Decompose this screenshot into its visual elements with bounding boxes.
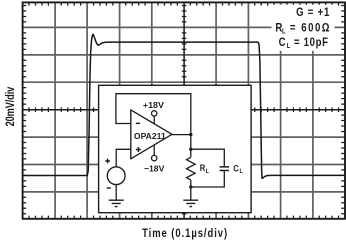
op-amp U1 OPA211 bbox=[131, 110, 172, 159]
label RL bbox=[200, 162, 209, 175]
y-axis label 20mV/div bbox=[5, 87, 17, 127]
svg-text:= 10pF: = 10pF bbox=[294, 36, 328, 49]
x-axis label Time (0.1us/div) bbox=[142, 227, 227, 240]
voltage source V1 bbox=[107, 167, 125, 185]
svg-text:L: L bbox=[282, 28, 286, 36]
svg-text:+18V: +18V bbox=[143, 100, 164, 110]
capacitor CL plates bbox=[220, 167, 229, 171]
wire CL bottom to ground rail bbox=[191, 171, 225, 187]
label CL bbox=[233, 163, 243, 176]
svg-text:OPA211: OPA211 bbox=[134, 131, 166, 141]
negative supply stub bbox=[153, 145, 155, 156]
source plus sign bbox=[105, 159, 110, 164]
feedback wire from output to inverting input bbox=[116, 94, 191, 135]
svg-text:−18V: −18V bbox=[144, 163, 165, 173]
negative supply terminal bbox=[152, 155, 157, 160]
circuit inset box bbox=[99, 85, 252, 212]
svg-text:R: R bbox=[200, 162, 206, 173]
label RL = 600 ohm bbox=[275, 21, 329, 35]
node: op-amp output junction bbox=[189, 133, 192, 136]
op-amp noninverting input sign bbox=[136, 147, 141, 152]
node: bottom ground junction bbox=[189, 185, 192, 188]
svg-text:G = +1: G = +1 bbox=[296, 6, 329, 19]
svg-text:L: L bbox=[287, 43, 291, 51]
wire source bottom to ground bbox=[115, 185, 117, 201]
svg-text:C: C bbox=[279, 36, 286, 49]
positive supply stub bbox=[153, 116, 155, 124]
resistor RL bbox=[187, 157, 196, 180]
svg-text:L: L bbox=[206, 169, 210, 176]
svg-text:Time (0.1µs/div): Time (0.1µs/div) bbox=[142, 227, 227, 240]
waveform trace (output step response) bbox=[23, 34, 345, 178]
ground under RL/CL bbox=[183, 200, 198, 206]
svg-text:20mV/div: 20mV/div bbox=[5, 87, 17, 127]
positive supply terminal bbox=[152, 111, 157, 116]
ground under source bbox=[109, 200, 124, 206]
white backing for condition labels bbox=[272, 5, 335, 51]
wire node to CL branch bbox=[191, 149, 225, 166]
label CL = 10pF bbox=[279, 36, 329, 51]
wire source to noninverting input bbox=[116, 149, 131, 167]
wire RL bottom to ground node bbox=[190, 180, 192, 200]
wire output node down to RL bbox=[190, 135, 192, 158]
wire op-amp output to node bbox=[172, 134, 191, 136]
svg-text:C: C bbox=[233, 163, 239, 174]
op-amp inverting input sign bbox=[136, 122, 140, 124]
svg-text:L: L bbox=[239, 169, 243, 176]
label G = +1 bbox=[296, 6, 329, 19]
source minus sign bbox=[107, 187, 111, 189]
node: RL/CL top junction bbox=[189, 148, 192, 151]
